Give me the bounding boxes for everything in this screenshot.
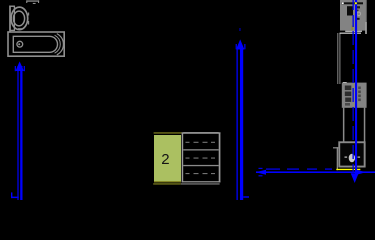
sink unit (bottom right box) [338, 141, 365, 167]
wall (left of bottom box) [333, 147, 338, 170]
dimension line center (blue, vertical, arrow up) [236, 28, 246, 200]
drawer divider 2 [183, 165, 219, 166]
drawer handle dashes row 2 [186, 157, 216, 160]
cabinet bottom edge (olive) [154, 181, 181, 182]
drawer unit (black with gray frame) [182, 132, 221, 182]
bathtub faucet mark [18, 28, 22, 29]
indicator dot (yellow, on washing machine) [355, 2, 357, 4]
wall (left, vertical beside toilet) [9, 6, 11, 33]
bathtub (plan view) [8, 32, 64, 56]
drawer unit top edge (white) [182, 132, 221, 133]
baseline under drawer unit (gray) [181, 183, 220, 184]
drawer divider 1 [183, 149, 219, 150]
clipped fixture (top edge, above toilet) [26, 0, 39, 4]
dimension foot tick (bottom left) [11, 192, 19, 198]
wall (right edge of top box, y0-34) [365, 0, 366, 22]
baseline under cabinet (olive) [153, 183, 181, 184]
cabinet 2 (green highlighted) [154, 135, 181, 181]
yellow sill line (under bottom box) [336, 169, 360, 170]
sill line under top box [345, 31, 362, 32]
dimension line left (blue, vertical, arrow up) [15, 61, 25, 200]
wall (double line, right lower, y107-141) [343, 108, 365, 142]
svg-text:2: 2 [161, 151, 169, 168]
drawer handle dashes row 1 [186, 141, 216, 144]
dimension tick (bottom center) [243, 196, 249, 197]
dimension line right (blue, vertical, arrow down) [351, 0, 359, 183]
cabinet top edge (olive over green unit) [154, 132, 182, 133]
wall (double line, right upper, y33-84) [337, 33, 340, 84]
dimension line horizontal (blue, arrow left + right) [256, 168, 375, 177]
toilet WC (plan view: tank + bowl) [10, 6, 29, 30]
window/label box (middle right) [342, 82, 367, 108]
washing machine (top right box) [340, 0, 366, 31]
drawer handle dashes row 3 [186, 172, 216, 175]
